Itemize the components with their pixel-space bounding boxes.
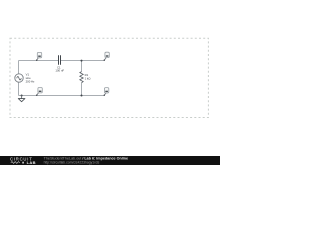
svg-text:100 nF: 100 nF	[55, 68, 64, 72]
node junction ground	[21, 95, 23, 97]
wire top horizontal left segment	[19, 60, 59, 62]
wire top horizontal right segment	[60, 60, 104, 62]
wire resistor top lead	[81, 61, 83, 72]
svg-text:http://circuitlab.com/c/s4223h: http://circuitlab.com/c/s4223hagy1v3s	[44, 160, 100, 164]
node junction top (R1/C1 net)	[81, 60, 83, 62]
probe flag top-left	[36, 52, 42, 61]
wire bottom horizontal	[19, 95, 105, 97]
schematic dashed border	[10, 38, 208, 117]
capacitor C1	[59, 55, 61, 65]
voltage source V1 (sine)	[15, 74, 23, 82]
sheet background	[0, 0, 220, 165]
label V1 value	[26, 72, 35, 83]
ground	[18, 96, 25, 102]
footer bar	[0, 156, 220, 165]
probe flag bottom-left	[36, 88, 42, 96]
svg-text:1 kΩ: 1 kΩ	[85, 77, 91, 81]
svg-text:200 Hz: 200 Hz	[26, 79, 35, 83]
svg-text:LAB: LAB	[27, 160, 36, 165]
probe flag top-right	[104, 52, 110, 61]
wire resistor bottom lead	[81, 83, 83, 96]
node junction bottom (R1/ground net)	[81, 95, 83, 97]
CircuitLab logo wordmark	[10, 156, 36, 165]
label R1 value	[85, 73, 91, 80]
wire source bottom lead	[18, 82, 20, 95]
wire top-left vertical (source top lead)	[18, 61, 20, 74]
probe flag bottom-right	[104, 88, 109, 96]
resistor R1	[80, 72, 83, 83]
label C1 value	[55, 66, 64, 73]
